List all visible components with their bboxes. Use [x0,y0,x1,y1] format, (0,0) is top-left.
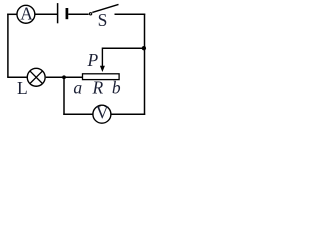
battery long plate [57,3,59,23]
lamp X diagonal 1 [30,71,43,84]
svg-text:L: L [17,78,28,98]
ammeter A1 circle [17,5,35,23]
wire: switch fixed contact to top-right corner [115,13,146,15]
switch S pivot circle [89,13,91,15]
wire: battery to switch pivot [68,13,89,15]
svg-text:V: V [96,103,109,123]
node: junction dot lamp/voltmeter [62,75,66,79]
wire: lamp to rheostat [46,76,83,78]
wire: slider horizontal from arrow to right rail [102,47,144,49]
svg-text:S: S [98,10,108,30]
wire: left rail to lamp [7,76,27,78]
svg-text:R: R [92,78,104,98]
svg-text:a: a [73,78,82,98]
wire: top-left horizontal from left rail to ammeter [7,13,16,15]
lamp L circle [27,68,45,86]
svg-text:b: b [112,78,121,98]
wire: ammeter to battery [36,13,58,15]
battery short thick plate [66,8,69,19]
voltmeter V1 circle [93,105,111,123]
wire: left vertical rail [7,14,9,78]
wire: junction down to voltmeter row [63,77,65,115]
svg-text:P: P [86,50,98,70]
svg-text:A: A [20,3,33,23]
background [0,0,147,125]
rheostat R body rectangle [83,74,120,80]
wire: bottom left to voltmeter [63,113,93,115]
wire: right vertical rail [144,14,146,115]
lamp X diagonal 2 [30,71,43,84]
node: junction dot on right rail [142,46,146,50]
wire: slider arrow shaft [101,48,103,67]
wire: voltmeter to right rail [111,113,145,115]
slider arrowhead [100,66,105,72]
switch blade [92,4,118,12]
